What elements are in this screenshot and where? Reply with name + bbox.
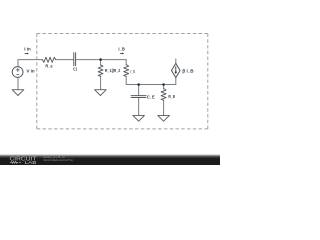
svg-text:V in: V in xyxy=(26,69,35,74)
svg-text:I_B: I_B xyxy=(118,46,124,51)
svg-text:C1: C1 xyxy=(73,66,78,71)
svg-text:β I_B: β I_B xyxy=(182,68,193,73)
svg-text:R_E: R_E xyxy=(168,94,175,99)
svg-text:r_π: r_π xyxy=(130,69,135,74)
svg-text:C_E: C_E xyxy=(147,94,155,99)
svg-text:LAB: LAB xyxy=(25,160,37,165)
svg-text:I in: I in xyxy=(24,46,31,51)
svg-text:R_1||R_2: R_1||R_2 xyxy=(105,68,121,73)
svg-text:R_s: R_s xyxy=(45,64,53,69)
svg-text:http​//circuitlab.com/cxst77re: http​//circuitlab.com/cxst77rey xyxy=(43,158,74,162)
